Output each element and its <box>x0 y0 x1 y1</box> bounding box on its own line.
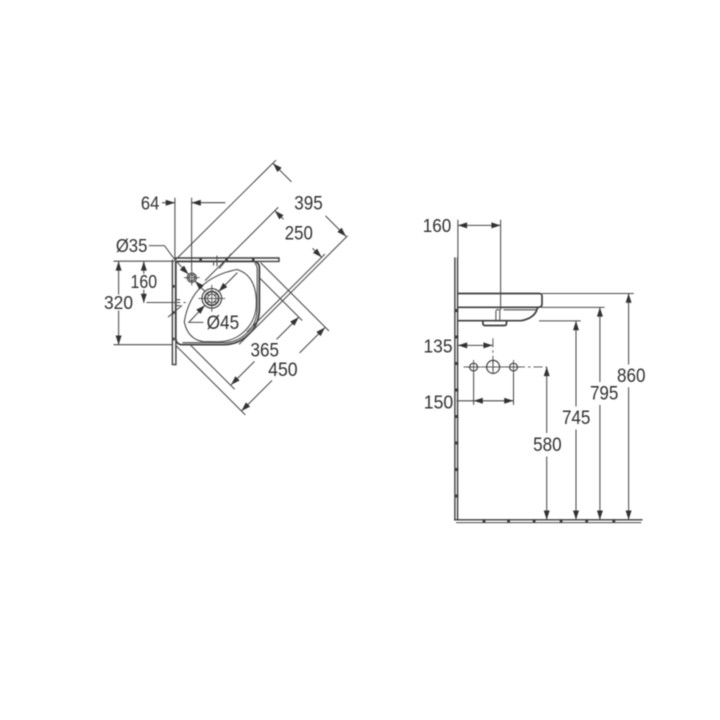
svg-text:150: 150 <box>424 391 454 412</box>
svg-text:Ø35: Ø35 <box>116 236 148 256</box>
svg-text:395: 395 <box>294 193 323 214</box>
svg-text:160: 160 <box>423 215 452 236</box>
svg-text:160: 160 <box>131 272 158 292</box>
svg-text:745: 745 <box>562 407 591 429</box>
svg-text:450: 450 <box>268 359 298 381</box>
svg-text:795: 795 <box>590 383 619 405</box>
svg-text:365: 365 <box>251 340 280 361</box>
svg-text:135: 135 <box>424 335 453 356</box>
svg-text:250: 250 <box>285 224 313 245</box>
svg-text:860: 860 <box>617 365 646 387</box>
svg-text:64: 64 <box>141 194 159 214</box>
svg-text:Ø45: Ø45 <box>207 313 240 334</box>
svg-text:320: 320 <box>104 293 133 313</box>
svg-text:580: 580 <box>533 434 562 456</box>
